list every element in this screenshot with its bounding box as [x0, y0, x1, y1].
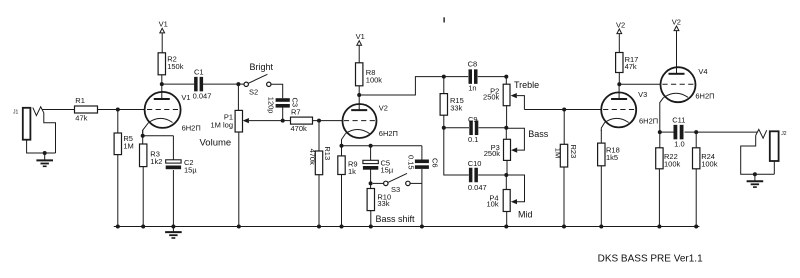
potentiometer P4 10k Mid [487, 175, 525, 227]
potentiometer P1 1M log Volume [210, 84, 282, 226]
wire R1 to V1 grid [98, 109, 145, 111]
svg-text:10k: 10k [487, 199, 499, 208]
svg-text:1n: 1n [468, 84, 476, 93]
node C5/R10/S3 [369, 181, 373, 185]
capacitor C3 120p [267, 97, 300, 114]
svg-text:Bass shift: Bass shift [376, 214, 416, 224]
ground at output jack [747, 172, 764, 187]
svg-text:Bass: Bass [528, 129, 549, 139]
node C1/S2/P1 [236, 82, 240, 86]
V2 supply arrow above V4 [672, 17, 681, 73]
wire cathode row [342, 145, 422, 147]
svg-text:100k: 100k [664, 160, 681, 169]
svg-text:250k: 250k [484, 149, 501, 158]
capacitor C8 1n [444, 59, 478, 92]
resistor R7 470k [283, 108, 313, 134]
svg-text:V1: V1 [159, 20, 168, 29]
svg-text:100k: 100k [701, 160, 718, 169]
triode V4 [660, 67, 715, 128]
stray mark [443, 17, 445, 22]
resistor R24 100k [693, 132, 718, 226]
node R7/R13 [317, 119, 321, 123]
wire S2 to C3 [271, 84, 283, 98]
resistor R17 47k [616, 53, 639, 73]
svg-text:47k: 47k [75, 114, 87, 123]
svg-text:V1: V1 [181, 93, 190, 102]
svg-text:100k: 100k [366, 76, 383, 85]
node V2 cathode [340, 144, 344, 148]
wire left drop to C10 [444, 128, 469, 175]
V1 supply arrow above R8 [356, 32, 365, 63]
svg-text:6Н2П: 6Н2П [182, 123, 201, 132]
svg-text:15µ: 15µ [184, 166, 197, 175]
resistor R10 33k [367, 183, 391, 226]
ground at input jack [36, 151, 53, 166]
node V4 cathode [658, 130, 662, 134]
wire C9 to P3 [479, 127, 507, 129]
resistor R9 1k [338, 146, 358, 227]
svg-text:33k: 33k [377, 199, 389, 208]
resistor R22 100k [656, 132, 681, 226]
wire R17 to plate node [618, 73, 620, 85]
svg-text:250k: 250k [483, 93, 500, 102]
V2 supply arrow above R17 [616, 20, 625, 52]
V1 supply arrow [159, 20, 168, 53]
svg-text:0.1: 0.1 [468, 135, 478, 144]
svg-text:0.047: 0.047 [193, 92, 212, 101]
svg-text:Mid: Mid [518, 209, 533, 219]
svg-text:6Н2П: 6Н2П [379, 129, 398, 138]
node V2 plate [357, 93, 361, 97]
node C5 branch [369, 144, 373, 148]
svg-text:V2: V2 [616, 20, 625, 29]
potentiometer P2 250k Treble [483, 77, 524, 128]
rail junction nodes [116, 225, 698, 229]
ground rail [114, 226, 700, 228]
svg-text:120p: 120p [267, 97, 276, 114]
node C3/P1 wiper/R7 [281, 119, 285, 123]
capacitor C9 0.1 [444, 115, 479, 144]
svg-text:R23: R23 [569, 145, 578, 159]
capacitor C2 15µ [143, 136, 198, 227]
wire R8 to V2 plate node [358, 86, 360, 95]
svg-text:S2: S2 [249, 87, 258, 96]
svg-text:1k: 1k [348, 167, 356, 176]
capacitor C10 0.047 [468, 159, 487, 192]
svg-text:Bright: Bright [250, 62, 274, 72]
svg-text:C11: C11 [672, 115, 685, 124]
wire V2 plate to tone stack [359, 77, 444, 95]
output jack J2 [741, 129, 787, 174]
resistor R15 33k [440, 77, 464, 128]
node V3 plate / V4 grid [617, 82, 621, 86]
triode V3 [601, 84, 658, 131]
wire J1 tip to R1 [43, 109, 75, 111]
node C9 left [442, 126, 446, 130]
svg-text:1M: 1M [553, 148, 562, 158]
svg-text:6Н2П: 6Н2П [695, 92, 714, 101]
svg-text:S3: S3 [391, 185, 400, 194]
wire to V4 grid [619, 83, 660, 85]
svg-text:V2: V2 [672, 17, 681, 26]
node C8 left [442, 75, 446, 79]
wire C1 to node [203, 83, 244, 85]
svg-text:0.15: 0.15 [406, 155, 415, 170]
potentiometer P3 250k Bass [484, 128, 525, 175]
svg-text:C10: C10 [468, 159, 482, 168]
wire C11 to output jack [685, 131, 697, 133]
node R1/R5/grid [116, 108, 120, 112]
wire C10 to P4 [478, 174, 506, 176]
svg-text:470k: 470k [308, 149, 317, 166]
capacitor C11 1.0 [660, 115, 686, 148]
resistor R13 470k [308, 121, 332, 227]
svg-text:6Н2П: 6Н2П [639, 116, 658, 125]
resistor R1 47k [75, 96, 98, 123]
resistor R23 1M [553, 110, 577, 227]
svg-text:C1: C1 [194, 68, 204, 77]
svg-text:V1: V1 [356, 32, 365, 41]
svg-text:C3: C3 [291, 98, 300, 108]
input jack J1 [13, 107, 56, 153]
svg-text:1k2: 1k2 [150, 157, 162, 166]
triode V1 [143, 84, 201, 133]
capacitor C1 0.047 [193, 68, 212, 101]
wire C8 to P2 [478, 76, 507, 78]
resistor R8 100k [356, 63, 383, 86]
svg-text:150k: 150k [167, 62, 184, 71]
svg-text:1.0: 1.0 [674, 140, 684, 149]
svg-text:V2: V2 [379, 103, 388, 112]
wire C3 to wiper node [282, 108, 284, 121]
svg-text:33k: 33k [450, 104, 462, 113]
svg-text:DKS BASS PRE Ver1.1: DKS BASS PRE Ver1.1 [598, 254, 703, 265]
node P4 top [504, 173, 508, 177]
svg-text:C9: C9 [468, 115, 478, 124]
svg-text:V3: V3 [638, 90, 647, 99]
svg-text:1M: 1M [123, 142, 133, 151]
resistor R18 1k5 [598, 130, 620, 227]
svg-text:47k: 47k [625, 62, 637, 71]
svg-text:J1: J1 [13, 109, 19, 115]
switch S3 [373, 173, 422, 194]
svg-text:C8: C8 [468, 59, 478, 68]
svg-text:1M log: 1M log [210, 121, 233, 130]
node P2 top [504, 75, 508, 79]
wire R7 to V2 grid [313, 120, 343, 122]
node P3 top [504, 126, 508, 130]
svg-text:Volume: Volume [200, 137, 232, 148]
node R23 top [562, 108, 566, 112]
svg-text:15µ: 15µ [381, 166, 394, 175]
triode V2 [342, 95, 398, 143]
node C11/R24 [694, 130, 698, 134]
svg-text:470k: 470k [291, 124, 308, 133]
capacitor C6 0.15 [406, 146, 439, 227]
svg-text:R1: R1 [75, 96, 85, 105]
node V1 cathode [141, 134, 145, 138]
svg-text:Treble: Treble [514, 80, 539, 90]
svg-text:V4: V4 [698, 67, 707, 76]
node V1 plate [160, 82, 164, 86]
ground at rail [165, 227, 182, 239]
wire treble out to V3 grid [524, 109, 601, 111]
resistor R2 150k [158, 53, 184, 75]
svg-text:0.047: 0.047 [468, 183, 487, 192]
wire R2 to plate node [161, 75, 163, 84]
switch S2 [244, 74, 271, 96]
svg-text:R7: R7 [291, 108, 301, 117]
capacitor C5 15µ [363, 146, 394, 184]
svg-text:R13: R13 [323, 146, 332, 160]
resistor R5 1M [114, 110, 134, 227]
svg-text:C6: C6 [431, 158, 440, 168]
resistor R3 1k2 [140, 136, 163, 227]
svg-text:1k5: 1k5 [606, 153, 618, 162]
wire plate to C1 [162, 83, 194, 85]
svg-text:J2: J2 [781, 131, 787, 137]
